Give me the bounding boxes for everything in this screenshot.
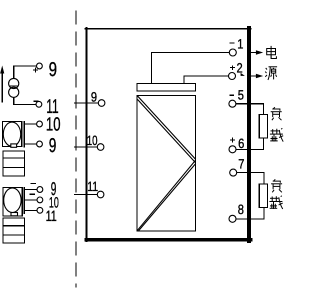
svg-text:9: 9 bbox=[49, 59, 57, 81]
svg-text:9: 9 bbox=[49, 135, 57, 157]
svg-text:8: 8 bbox=[238, 202, 244, 217]
svg-text:6: 6 bbox=[238, 136, 244, 151]
svg-text:11: 11 bbox=[87, 179, 98, 194]
svg-text:2: 2 bbox=[237, 61, 243, 76]
svg-text:5: 5 bbox=[238, 87, 244, 102]
svg-text:10: 10 bbox=[87, 133, 98, 148]
svg-text:11: 11 bbox=[46, 208, 57, 225]
svg-text:10: 10 bbox=[46, 115, 61, 136]
svg-text:7: 7 bbox=[238, 157, 244, 172]
svg-text:9: 9 bbox=[91, 90, 97, 105]
svg-text:1: 1 bbox=[237, 36, 243, 51]
